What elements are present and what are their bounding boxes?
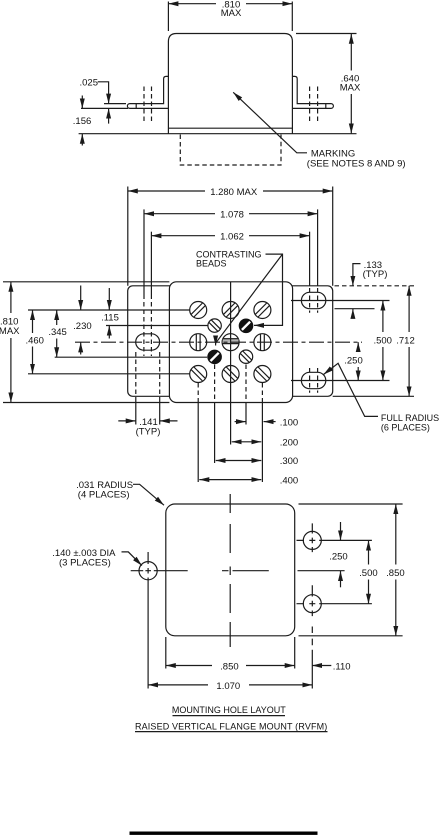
svg-text:.110: .110: [333, 661, 351, 672]
svg-text:.712: .712: [396, 335, 415, 346]
svg-text:.345: .345: [48, 327, 67, 338]
svg-text:BEADS: BEADS: [196, 259, 227, 269]
svg-text:MAX: MAX: [0, 326, 20, 337]
svg-text:MAX: MAX: [221, 8, 242, 19]
svg-text:.250: .250: [344, 355, 363, 366]
svg-text:.156: .156: [73, 116, 92, 127]
svg-text:.300: .300: [280, 456, 299, 467]
svg-text:(SEE NOTES 8 AND 9): (SEE NOTES 8 AND 9): [307, 158, 406, 169]
svg-text:.100: .100: [280, 417, 299, 428]
svg-text:1.078: 1.078: [220, 210, 244, 221]
svg-text:RAISED VERTICAL FLANGE MOUNT (: RAISED VERTICAL FLANGE MOUNT (RVFM): [135, 721, 327, 731]
svg-text:.250: .250: [329, 551, 348, 562]
svg-text:.400: .400: [280, 475, 299, 486]
svg-text:.115: .115: [101, 313, 119, 324]
svg-text:MOUNTING HOLE LAYOUT: MOUNTING HOLE LAYOUT: [172, 705, 286, 715]
svg-text:1.062: 1.062: [220, 232, 244, 243]
svg-text:.850: .850: [386, 568, 405, 579]
svg-text:1.280 MAX: 1.280 MAX: [210, 187, 258, 198]
svg-text:(TYP): (TYP): [136, 427, 161, 438]
svg-text:.460: .460: [25, 335, 44, 346]
svg-text:(4 PLACES): (4 PLACES): [78, 490, 130, 501]
svg-text:.500: .500: [359, 568, 378, 579]
svg-text:.500: .500: [373, 335, 392, 346]
svg-text:MAX: MAX: [340, 83, 361, 94]
svg-text:(6 PLACES): (6 PLACES): [381, 422, 430, 432]
svg-text:FULL RADIUS: FULL RADIUS: [381, 413, 439, 423]
svg-text:.200: .200: [280, 438, 299, 449]
svg-text:(3 PLACES): (3 PLACES): [59, 558, 111, 569]
svg-text:.025: .025: [80, 78, 99, 89]
svg-text:.230: .230: [73, 321, 92, 332]
svg-text:(TYP): (TYP): [363, 269, 388, 280]
svg-text:1.070: 1.070: [216, 681, 240, 692]
svg-text:.850: .850: [220, 661, 239, 672]
